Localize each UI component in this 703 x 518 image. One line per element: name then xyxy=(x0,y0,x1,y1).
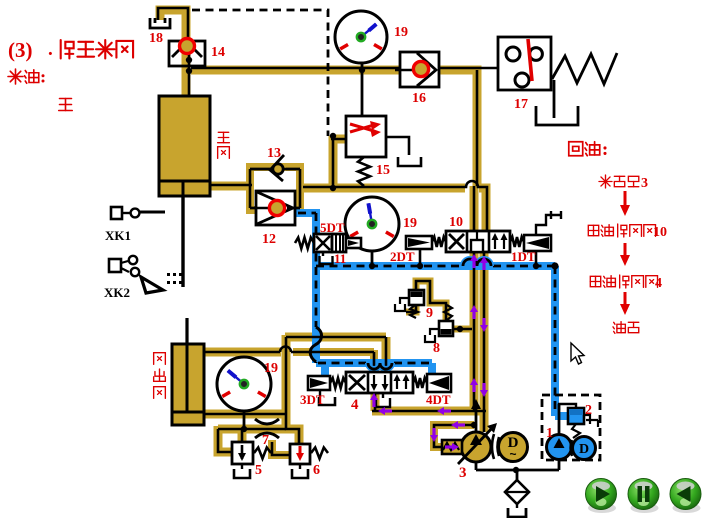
limit switch XK2 with roller lever xyxy=(109,259,121,272)
svg-text:7: 7 xyxy=(262,433,269,448)
red arrow 3 xyxy=(624,292,627,307)
svg-text:XK1: XK1 xyxy=(105,228,131,243)
svg-text:.: . xyxy=(48,39,53,60)
wire: dashed pilot line from valve 14 to relief 15 junction xyxy=(192,10,328,136)
svg-text:~: ~ xyxy=(509,447,516,461)
svg-text:15: 15 xyxy=(376,163,390,178)
wire: main cylinder bottom port to check loop xyxy=(210,182,252,191)
wire: blue horizontal line 2 (y363) to 3DT / 4DT xyxy=(316,363,432,376)
wire: blue horizontal line 1 (y266) to right side drop xyxy=(316,266,568,416)
电液换向阀4 xyxy=(590,276,600,286)
gauge 19 bottom xyxy=(217,357,271,411)
wire: branch down to pump 3 compensator xyxy=(434,425,474,447)
变量泵3 xyxy=(599,175,612,188)
svg-text:6: 6 xyxy=(313,463,320,478)
gauge 19 middle xyxy=(345,197,399,251)
solenoid 1DT xyxy=(510,237,524,247)
red arrow 1 xyxy=(624,191,627,208)
油箱 xyxy=(613,322,625,334)
svg-text:17: 17 xyxy=(514,97,528,112)
hop arcs where blue2 dashed line crosses cylinder lines xyxy=(368,363,392,369)
wire: dashed overlay on blue lines xyxy=(298,213,316,363)
check valve 13 xyxy=(250,168,300,171)
pressure switch 17 drain to tank xyxy=(553,80,556,118)
svg-text:10: 10 xyxy=(653,225,667,240)
check valve 14 pilot-operated xyxy=(169,41,205,66)
svg-text:5DT: 5DT xyxy=(320,220,345,235)
svg-text:(3): (3) xyxy=(8,38,33,62)
wire: line 1 to valve 4 port B xyxy=(285,337,386,372)
svg-text:4: 4 xyxy=(351,397,359,413)
button pause xyxy=(628,479,659,514)
进油: xyxy=(8,69,23,84)
relief valve 2 blue xyxy=(559,404,576,410)
label 主缸 vertical xyxy=(218,132,230,142)
svg-text:18: 18 xyxy=(149,31,163,46)
svg-text:12: 12 xyxy=(262,232,276,247)
relief 15 drain xyxy=(386,137,409,155)
1DT drain pipe xyxy=(536,211,561,235)
wire: vertical piston-side line from line1 down to relief line xyxy=(286,335,299,446)
main cylinder 主缸 xyxy=(159,96,210,196)
wire: drain pipe from check valve 14 up-left to tank 18 xyxy=(160,10,186,44)
svg-text:5: 5 xyxy=(255,463,262,478)
wire: riser continuation below valve 10, two parallel pipes xyxy=(470,186,479,411)
svg-text:4: 4 xyxy=(655,276,662,291)
wire: sequence valve 9/8 piping xyxy=(416,281,446,321)
node: junctions xyxy=(186,68,192,74)
svg-text:2: 2 xyxy=(585,403,592,418)
throttle valve 7 xyxy=(255,419,279,424)
svg-text:1: 1 xyxy=(546,426,553,441)
pilot relief valve 15 xyxy=(346,116,386,157)
svg-text:19: 19 xyxy=(264,361,278,376)
variable pump 3 xyxy=(461,432,491,462)
label 顶出缸 vertical xyxy=(154,353,166,365)
ejection cylinder 顶出缸 xyxy=(172,344,204,425)
check valve 16 xyxy=(400,52,439,87)
svg-text:16: 16 xyxy=(412,91,426,106)
mouse cursor xyxy=(571,343,584,364)
valve10 right cell arrows xyxy=(495,237,504,249)
relief valve 6 xyxy=(290,444,310,464)
suction line and filter xyxy=(476,460,559,480)
svg-text:19: 19 xyxy=(403,216,417,231)
无 xyxy=(59,99,73,111)
wire: bottom return line valve10 to valve4 xyxy=(372,407,486,416)
tank 18 drain symbol xyxy=(150,18,170,28)
svg-text:XK2: XK2 xyxy=(104,285,130,300)
svg-text:1DT: 1DT xyxy=(511,249,536,264)
wire: blue pilot line from valve 12 down left side xyxy=(295,213,316,363)
pump 3 compensator box xyxy=(442,440,462,454)
wire 2DT to blue xyxy=(419,249,422,266)
electric motor D yellow xyxy=(499,433,528,462)
directional valve 4 3-position xyxy=(346,372,413,393)
svg-text:10: 10 xyxy=(449,215,463,230)
valve 4 small tank below xyxy=(382,393,384,398)
gauge 19 top xyxy=(335,11,387,63)
hop arcs where blue pilot line crosses risers xyxy=(463,259,491,266)
valve 11 tank xyxy=(322,252,324,256)
flow arrows purple xyxy=(470,305,478,319)
pilot check valve 12 xyxy=(256,191,295,225)
电液换向阀10 xyxy=(588,225,598,235)
wiggle where blue pilot crosses cylinder lines xyxy=(310,327,321,362)
wire: main horizontal line y188 from loop to hop at valve10 riser xyxy=(303,184,465,193)
svg-text:3: 3 xyxy=(459,465,467,481)
button play xyxy=(586,479,617,514)
svg-text:4DT: 4DT xyxy=(426,392,451,407)
pump 1 blue xyxy=(547,435,572,460)
svg-text:11: 11 xyxy=(334,251,346,266)
sequence valve 8 xyxy=(439,321,453,336)
svg-text:19: 19 xyxy=(394,25,408,40)
solenoid 4DT xyxy=(413,378,427,388)
svg-text:8: 8 xyxy=(433,341,440,356)
pump 3 outlet arrow up xyxy=(475,404,478,432)
wire 1DT to blue xyxy=(535,251,538,266)
wire: line 2 rod side to valve 4 port A xyxy=(293,350,374,372)
wire: ejection cylinder piston-side bottom line xyxy=(204,410,286,419)
motor D blue xyxy=(573,437,596,460)
relief valve 5 xyxy=(232,442,253,464)
button back xyxy=(670,479,701,514)
svg-text:14: 14 xyxy=(211,45,225,60)
red arrow 2 xyxy=(624,243,627,258)
directional valve 10 3-position xyxy=(446,231,510,252)
svg-text:3DT: 3DT xyxy=(300,392,325,407)
wire: vertical pipe valve14 to main cylinder top xyxy=(182,40,191,96)
wire: check valve loop around 13 and 12 xyxy=(250,167,300,210)
pressure switch 17 spring xyxy=(552,53,617,84)
svg-text:2DT: 2DT xyxy=(390,249,415,264)
回油: xyxy=(569,142,583,156)
pressure switch 17 xyxy=(498,37,551,90)
main cylinder piston rod xyxy=(181,196,184,287)
svg-text:3: 3 xyxy=(641,176,648,191)
svg-text:D: D xyxy=(579,442,589,457)
wire: valve 4 bottom to return line xyxy=(371,393,380,411)
wire: black line over top horizontal xyxy=(191,68,498,186)
wire: top horizontal line from valve 14 to right, down to valve 10 xyxy=(191,70,477,186)
svg-text:9: 9 xyxy=(426,306,433,321)
wire: ejection cylinder rod-side line to hop xyxy=(204,348,281,357)
solenoid 2DT xyxy=(406,236,432,249)
dashed box pump unit 1/2 xyxy=(542,395,600,460)
wire: black line over main y188 with hop over riser xyxy=(303,181,487,231)
limit switch XK1 xyxy=(111,207,122,219)
sequence valve 9 xyxy=(409,290,424,305)
dotted link to rod xyxy=(167,273,170,276)
solenoid valve 11 (5DT) xyxy=(295,238,314,249)
svg-text:13: 13 xyxy=(267,146,281,161)
solenoid 3DT xyxy=(308,376,330,390)
wire: pilot branch down to relief valve 15 xyxy=(329,136,338,188)
